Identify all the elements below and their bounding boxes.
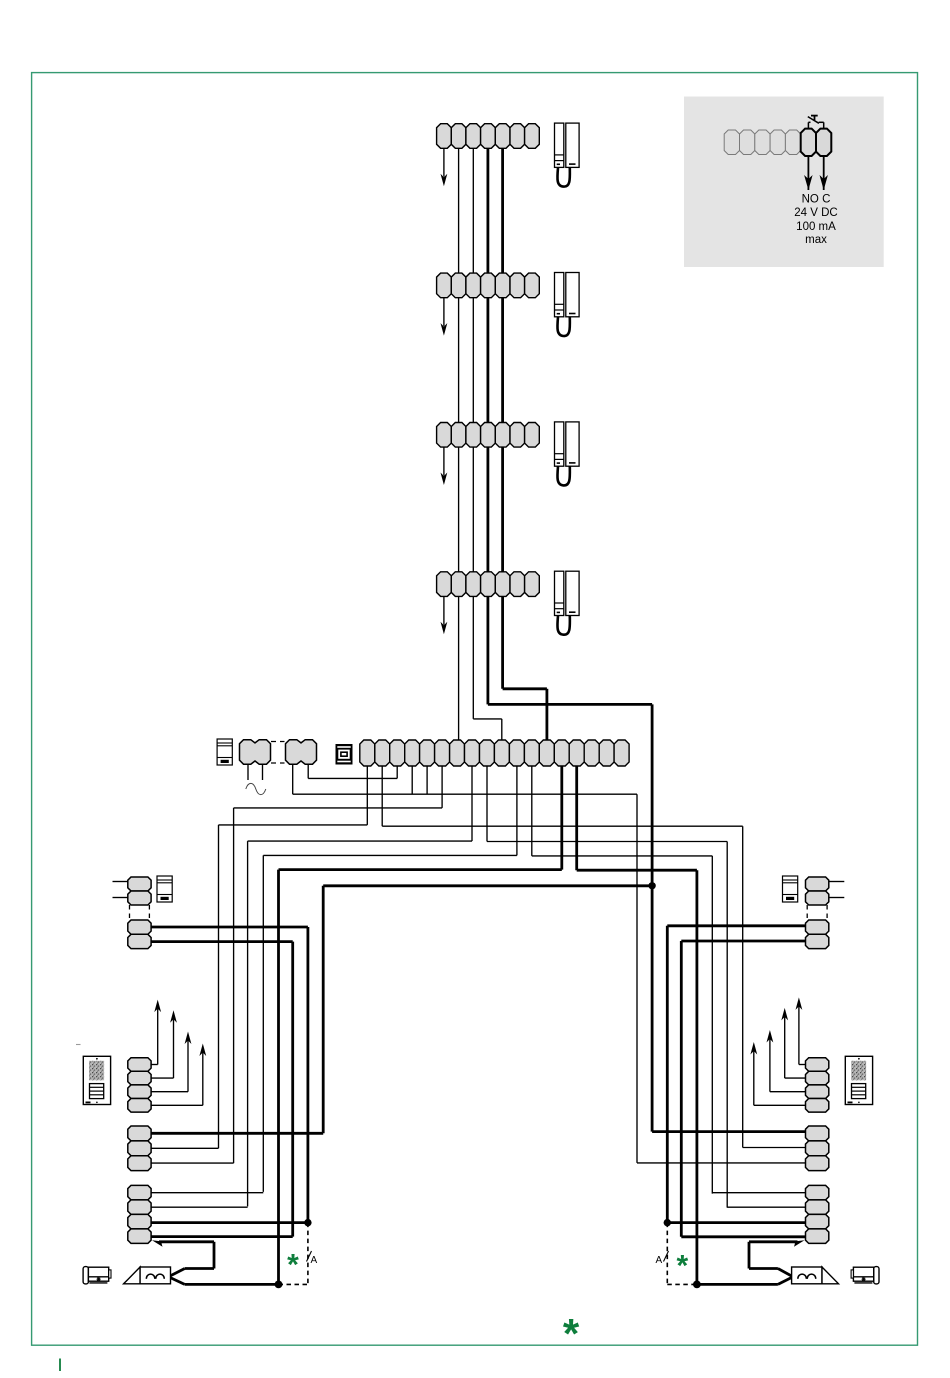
svg-text:A: A bbox=[656, 1255, 663, 1266]
svg-text:NO C: NO C bbox=[802, 194, 831, 206]
svg-text:100 mA: 100 mA bbox=[796, 221, 836, 233]
svg-text:*: * bbox=[287, 1249, 299, 1282]
svg-text:A: A bbox=[311, 1255, 318, 1266]
svg-text:max: max bbox=[805, 234, 827, 246]
svg-text:*: * bbox=[676, 1250, 688, 1283]
svg-text:*: * bbox=[563, 1310, 580, 1357]
svg-text:24 V DC: 24 V DC bbox=[794, 207, 837, 219]
